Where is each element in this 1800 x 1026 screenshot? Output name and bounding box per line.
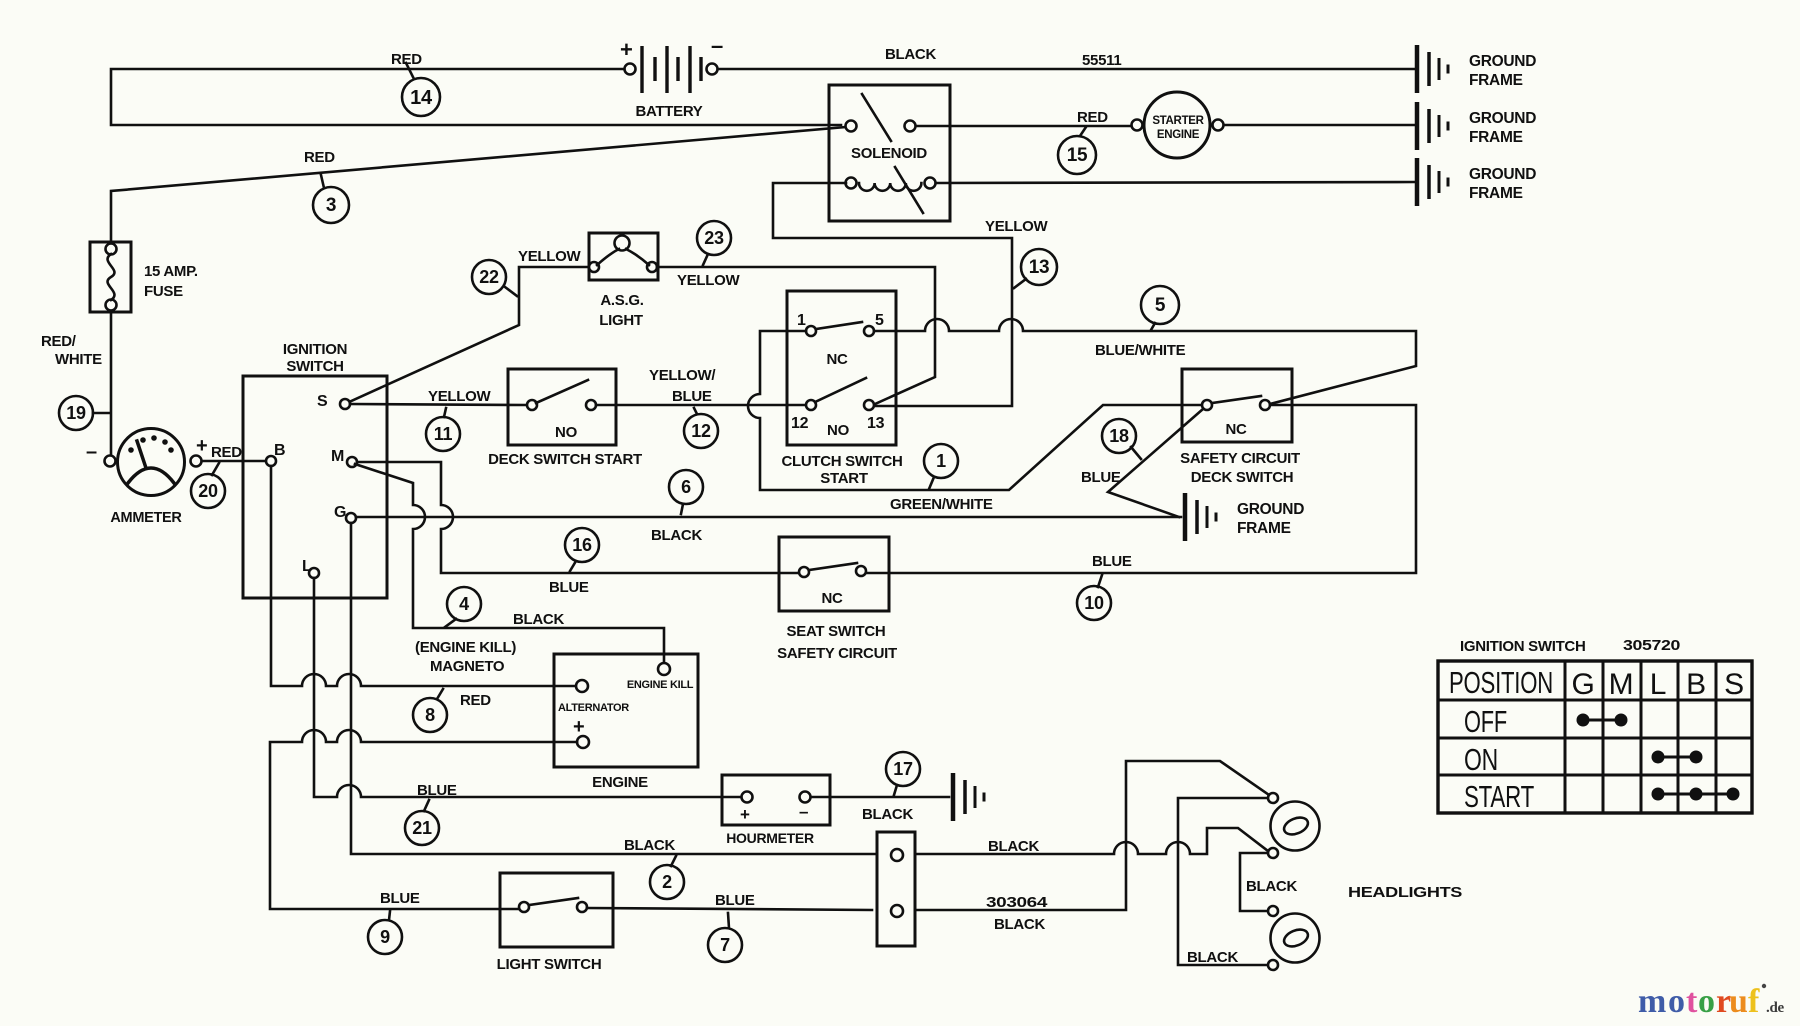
wire label circle 18 (BLUE 18) bbox=[1102, 419, 1136, 453]
svg-text:YELLOW: YELLOW bbox=[677, 272, 741, 289]
svg-text:o: o bbox=[1698, 983, 1715, 1020]
svg-text:BLACK: BLACK bbox=[988, 838, 1039, 855]
wire label circle 15 (RED 15) bbox=[1058, 136, 1096, 174]
svg-text:t: t bbox=[1686, 983, 1698, 1020]
svg-text:.de: .de bbox=[1766, 1000, 1784, 1016]
headlight 2 bbox=[1268, 906, 1320, 970]
svg-text:16: 16 bbox=[572, 535, 592, 555]
svg-text:8: 8 bbox=[425, 705, 435, 725]
svg-text:21: 21 bbox=[412, 818, 432, 838]
wire label circle 1 (GREEN/WHITE 1) bbox=[924, 444, 958, 478]
svg-text:IGNITION: IGNITION bbox=[283, 341, 347, 358]
svg-text:f: f bbox=[1748, 983, 1760, 1020]
svg-text:u: u bbox=[1729, 983, 1748, 1020]
svg-text:AMMETER: AMMETER bbox=[110, 510, 182, 526]
wire: headlight vertical to headlight 2 bottom bbox=[1178, 798, 1267, 965]
svg-text:RED: RED bbox=[1077, 109, 1108, 126]
svg-text:L: L bbox=[1650, 668, 1666, 701]
wire label circle 6 (BLACK 6) bbox=[669, 470, 703, 504]
safety circuit deck switch NC bbox=[1180, 369, 1300, 486]
svg-text:BLACK: BLACK bbox=[1246, 878, 1297, 895]
svg-text:4: 4 bbox=[459, 594, 469, 614]
svg-text:–: – bbox=[799, 802, 808, 821]
svg-text:5: 5 bbox=[1155, 295, 1166, 316]
svg-text:+: + bbox=[573, 716, 584, 738]
svg-text:BLACK: BLACK bbox=[994, 916, 1045, 933]
svg-text:GROUND: GROUND bbox=[1469, 110, 1536, 127]
svg-text:CLUTCH SWITCH: CLUTCH SWITCH bbox=[781, 453, 902, 470]
ignition terminal B bbox=[266, 456, 276, 466]
connector block bbox=[877, 832, 915, 946]
headlight 1 bbox=[1268, 793, 1320, 858]
svg-text:ENGINE: ENGINE bbox=[1157, 129, 1200, 141]
svg-text:ENGINE: ENGINE bbox=[592, 774, 648, 791]
svg-text:22: 22 bbox=[479, 267, 499, 287]
wire BLACK 6: ignition G to ground frame 4 bbox=[356, 516, 1181, 519]
svg-text:SAFETY CIRCUIT: SAFETY CIRCUIT bbox=[1180, 450, 1300, 467]
svg-text:–: – bbox=[711, 33, 723, 58]
svg-text:2: 2 bbox=[662, 872, 672, 892]
wire label circle 22 (YELLOW 22) bbox=[472, 260, 506, 294]
svg-text:19: 19 bbox=[66, 403, 86, 423]
ammeter M2 bbox=[86, 429, 207, 527]
wire: solenoid coil to ground frame 3 bbox=[936, 182, 1414, 183]
svg-text:LIGHT SWITCH: LIGHT SWITCH bbox=[497, 956, 602, 973]
wire BLUE 7: light switch to connector bbox=[587, 908, 872, 910]
svg-text:BLUE: BLUE bbox=[417, 782, 457, 799]
svg-text:WHITE: WHITE bbox=[55, 351, 102, 368]
wire label circle 11 (YELLOW 11) bbox=[426, 417, 460, 451]
svg-text:NO: NO bbox=[827, 422, 850, 439]
wire RED/WHITE: fuse to ammeter bbox=[110, 312, 113, 455]
wire label circle 8 (RED 8) bbox=[413, 698, 447, 732]
svg-text:YELLOW/: YELLOW/ bbox=[649, 367, 716, 384]
svg-text:15: 15 bbox=[1067, 145, 1088, 166]
svg-text:SEAT SWITCH: SEAT SWITCH bbox=[787, 623, 886, 640]
svg-text:ENGINE KILL: ENGINE KILL bbox=[627, 679, 694, 691]
wire RED 15: solenoid to starter engine bbox=[916, 125, 1131, 128]
svg-text:POSITION: POSITION bbox=[1449, 665, 1553, 700]
leader circle 14 bbox=[406, 63, 414, 79]
svg-text:BLACK: BLACK bbox=[651, 527, 702, 544]
seat switch safety circuit NC bbox=[777, 537, 897, 662]
svg-text:10: 10 bbox=[1084, 593, 1104, 613]
hourmeter bbox=[722, 775, 830, 846]
svg-text:MAGNETO: MAGNETO bbox=[430, 658, 505, 675]
svg-text:RED/: RED/ bbox=[41, 333, 77, 350]
svg-text:YELLOW: YELLOW bbox=[428, 388, 492, 405]
ignition terminal G bbox=[346, 513, 356, 523]
svg-text:303064: 303064 bbox=[986, 894, 1048, 911]
ground frame 5 (hourmeter) bbox=[953, 773, 984, 821]
svg-text:A.S.G.: A.S.G. bbox=[600, 292, 643, 309]
svg-text:FRAME: FRAME bbox=[1469, 129, 1523, 146]
wire BLACK: headlight 1 to headlight 2 bbox=[1240, 853, 1267, 911]
svg-text:BLUE: BLUE bbox=[549, 579, 589, 596]
svg-text:NO: NO bbox=[555, 424, 578, 441]
START row contacts L-B-S bbox=[1658, 793, 1733, 796]
svg-text:+: + bbox=[740, 805, 750, 824]
svg-text:B: B bbox=[1686, 668, 1706, 701]
wire RED 8: ignition B to engine alternator bbox=[271, 466, 576, 686]
wire BLUE 16: ignition M to seat switch bbox=[357, 462, 799, 573]
svg-text:DECK SWITCH: DECK SWITCH bbox=[1191, 469, 1294, 486]
svg-text:OFF: OFF bbox=[1464, 704, 1507, 739]
wire BLUE 18: safety deck switch to ground frame bbox=[1108, 409, 1203, 517]
fuse F1 15 AMP bbox=[90, 242, 198, 312]
svg-text:20: 20 bbox=[198, 481, 218, 501]
svg-text:BLACK: BLACK bbox=[513, 611, 564, 628]
svg-text:+: + bbox=[620, 37, 633, 62]
OFF row contacts G-M bbox=[1583, 719, 1621, 722]
ground frame 3 bbox=[1417, 158, 1536, 206]
svg-text:(ENGINE KILL): (ENGINE KILL) bbox=[415, 639, 516, 656]
svg-text:9: 9 bbox=[380, 927, 390, 947]
svg-text:18: 18 bbox=[1109, 426, 1129, 446]
svg-text:1: 1 bbox=[936, 451, 946, 471]
svg-text:HOURMETER: HOURMETER bbox=[726, 830, 814, 846]
svg-text:NC: NC bbox=[821, 590, 843, 607]
svg-text:17: 17 bbox=[893, 759, 913, 779]
ground frame 4 (safety circuit) bbox=[1185, 493, 1304, 541]
wire YELLOW 13: solenoid coil to clutch contact 13 bbox=[773, 183, 1012, 406]
svg-text:SAFETY CIRCUIT: SAFETY CIRCUIT bbox=[777, 645, 897, 662]
svg-text:6: 6 bbox=[681, 477, 691, 497]
svg-text:23: 23 bbox=[704, 228, 724, 248]
wire YELLOW/BLUE 12: deck switch to clutch 12 bbox=[596, 404, 806, 407]
wire 3 RED: fuse to solenoid contact (diagonal) bbox=[111, 127, 846, 243]
ON row contacts L-B bbox=[1658, 756, 1696, 759]
svg-text:305720: 305720 bbox=[1623, 637, 1680, 654]
svg-text:BATTERY: BATTERY bbox=[635, 103, 702, 120]
svg-text:BLUE: BLUE bbox=[1092, 553, 1132, 570]
svg-text:B: B bbox=[274, 442, 285, 459]
svg-text:+: + bbox=[196, 435, 207, 457]
wire 14 RED: battery+ to solenoid via left bus bbox=[111, 69, 841, 125]
svg-text:SOLENOID: SOLENOID bbox=[851, 145, 927, 162]
svg-text:m: m bbox=[1638, 983, 1666, 1020]
svg-text:11: 11 bbox=[434, 424, 453, 444]
wire label circle 9 (BLUE 9) bbox=[368, 920, 402, 954]
wire BLACK 2: ignition G to connector bbox=[351, 523, 877, 854]
svg-text:RED: RED bbox=[211, 444, 242, 461]
svg-text:55511: 55511 bbox=[1082, 52, 1121, 69]
wire label circle 21 (BLUE 21) bbox=[405, 811, 439, 845]
svg-text:BLACK: BLACK bbox=[885, 46, 936, 63]
wire label circle 10 (BLUE 10) bbox=[1077, 586, 1111, 620]
svg-text:L: L bbox=[302, 558, 312, 575]
svg-text:BLUE: BLUE bbox=[715, 892, 755, 909]
wire: engine alternator + to light switch feed bbox=[270, 730, 577, 909]
svg-text:15 AMP.: 15 AMP. bbox=[144, 263, 198, 280]
ignition switch SW1 bbox=[243, 341, 387, 598]
svg-text:BLUE: BLUE bbox=[380, 890, 420, 907]
wire label circle 2 (BLACK 2) bbox=[650, 865, 684, 899]
ground frame 1 bbox=[1417, 45, 1536, 93]
svg-text:S: S bbox=[1724, 668, 1744, 701]
svg-text:–: – bbox=[86, 441, 97, 463]
svg-text:ON: ON bbox=[1464, 742, 1498, 777]
A.S.G. light DS1 bbox=[589, 233, 658, 329]
solenoid U1 bbox=[829, 85, 950, 221]
svg-text:BLACK: BLACK bbox=[624, 837, 675, 854]
svg-text:IGNITION SWITCH: IGNITION SWITCH bbox=[1460, 638, 1586, 655]
svg-text:5: 5 bbox=[875, 312, 884, 329]
svg-text:NC: NC bbox=[826, 351, 848, 368]
svg-text:NC: NC bbox=[1225, 421, 1247, 438]
svg-text:GROUND: GROUND bbox=[1469, 53, 1536, 70]
wire BLACK 17: hourmeter to ground bbox=[811, 796, 949, 799]
wire: starter to ground frame 2 bbox=[1224, 124, 1414, 127]
svg-text:LIGHT: LIGHT bbox=[599, 312, 643, 329]
wire BLUE 21: ignition L to hourmeter bbox=[314, 578, 741, 797]
wire label circle 23 (YELLOW 23) bbox=[697, 221, 731, 255]
wire label circle 14 (RED 14) bbox=[402, 78, 440, 116]
svg-text:M: M bbox=[331, 448, 344, 465]
light switch bbox=[497, 873, 613, 973]
svg-text:3: 3 bbox=[326, 195, 336, 216]
ground frame 2 bbox=[1417, 102, 1536, 150]
svg-text:BLUE: BLUE bbox=[1081, 469, 1121, 486]
wire label circle 19 (RED/WHITE 19) bbox=[59, 396, 93, 430]
svg-text:GROUND: GROUND bbox=[1237, 501, 1304, 518]
svg-text:M: M bbox=[1609, 668, 1634, 701]
svg-text:YELLOW: YELLOW bbox=[518, 248, 582, 265]
svg-text:BLUE: BLUE bbox=[672, 388, 712, 405]
wire YELLOW 23: A.S.G. light to clutch 13 bbox=[657, 267, 935, 404]
ignition terminal S bbox=[340, 399, 350, 409]
svg-text:START: START bbox=[1464, 779, 1534, 814]
battery bbox=[620, 33, 723, 120]
svg-text:FRAME: FRAME bbox=[1237, 520, 1291, 537]
svg-text:FRAME: FRAME bbox=[1469, 185, 1523, 202]
wire label circle 12 (YELLOW/BLUE 12) bbox=[684, 414, 718, 448]
wire YELLOW 22: ignition S to A.S.G. light bbox=[349, 267, 589, 402]
wire BLUE/WHITE 5: clutch 5 to safety deck switch bbox=[874, 319, 1416, 404]
svg-text:7: 7 bbox=[720, 935, 730, 955]
svg-text:GREEN/WHITE: GREEN/WHITE bbox=[890, 496, 993, 513]
wire label circle 16 (BLUE 16) bbox=[565, 528, 599, 562]
ignition terminal M bbox=[347, 457, 357, 467]
svg-text:YELLOW: YELLOW bbox=[985, 218, 1049, 235]
ignition switch table bbox=[1438, 661, 1752, 814]
wire BLUE 10: safety deck switch to seat switch bbox=[866, 405, 1416, 573]
svg-text:BLUE/WHITE: BLUE/WHITE bbox=[1095, 342, 1186, 359]
wire label circle 20 (RED 20) bbox=[191, 474, 225, 508]
svg-text:S: S bbox=[317, 393, 328, 410]
svg-text:FUSE: FUSE bbox=[144, 283, 183, 300]
svg-text:RED: RED bbox=[460, 692, 491, 709]
clutch switch START bbox=[781, 291, 902, 487]
motoruf.de watermark logo bbox=[1638, 983, 1784, 1020]
wire label circle 13 (YELLOW 13) bbox=[1021, 249, 1057, 285]
svg-text:14: 14 bbox=[410, 87, 433, 109]
svg-text:SWITCH: SWITCH bbox=[286, 358, 343, 375]
svg-text:FRAME: FRAME bbox=[1469, 72, 1523, 89]
svg-text:1: 1 bbox=[797, 312, 806, 329]
wire label circle 17 (BLACK 17) bbox=[886, 752, 920, 786]
svg-text:13: 13 bbox=[867, 415, 885, 432]
svg-text:GROUND: GROUND bbox=[1469, 166, 1536, 183]
svg-text:12: 12 bbox=[691, 421, 711, 441]
engine box bbox=[554, 654, 698, 791]
wire label circle 4 (BLACK 4) bbox=[447, 587, 481, 621]
wire label circle 5 (BLUE/WHITE 5) bbox=[1141, 286, 1179, 324]
svg-text:STARTER: STARTER bbox=[1152, 115, 1204, 127]
deck switch NO bbox=[488, 369, 642, 468]
svg-text:ALTERNATOR: ALTERNATOR bbox=[558, 702, 629, 714]
wire GREEN/WHITE 1: clutch 1 loop to safety deck switch bbox=[748, 331, 1202, 490]
svg-text:RED: RED bbox=[304, 149, 335, 166]
svg-text:START: START bbox=[820, 470, 868, 487]
svg-text:12: 12 bbox=[791, 415, 809, 432]
wire 303064 BLACK: connector to headlight 1 (top) bbox=[915, 761, 1269, 910]
svg-text:o: o bbox=[1668, 983, 1685, 1020]
svg-text:BLACK: BLACK bbox=[862, 806, 913, 823]
wire YELLOW 11: S to deck switch bbox=[350, 404, 527, 405]
wire BLACK: connector to headlight 1 (lower) bbox=[915, 828, 1268, 854]
starter engine M1 bbox=[1132, 92, 1224, 158]
svg-text:G: G bbox=[1571, 668, 1594, 701]
wire label circle 7 (BLUE 7) bbox=[708, 928, 742, 962]
wire label circle 3 (RED 3) bbox=[313, 187, 349, 223]
svg-text:13: 13 bbox=[1029, 257, 1050, 278]
wire BLACK 55511: battery- to ground frame bbox=[718, 68, 1414, 71]
svg-text:G: G bbox=[334, 504, 346, 521]
wire RED 20: ammeter to ignition B bbox=[202, 460, 266, 463]
ignition terminal L bbox=[309, 568, 319, 578]
svg-text:DECK SWITCH START: DECK SWITCH START bbox=[488, 451, 642, 468]
svg-text:BLACK: BLACK bbox=[1187, 949, 1238, 966]
svg-text:HEADLIGHTS: HEADLIGHTS bbox=[1348, 884, 1462, 901]
wire BLACK 4 (ENGINE KILL) MAGNETO: ignition M to engine kill bbox=[355, 464, 664, 662]
